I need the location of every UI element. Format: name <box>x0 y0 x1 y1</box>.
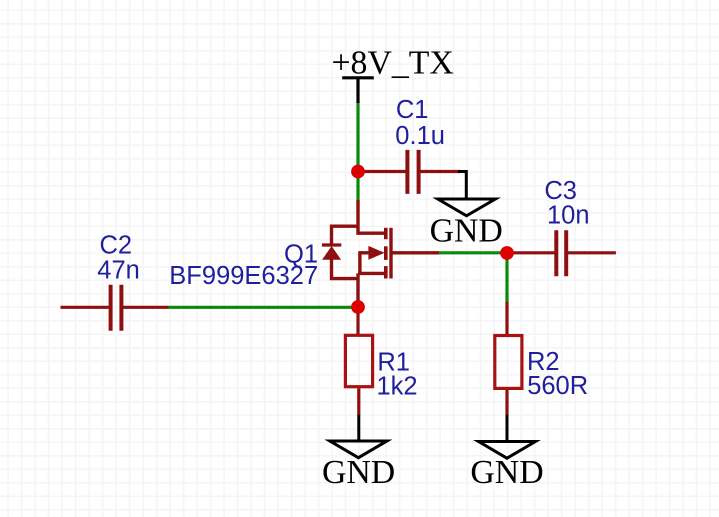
svg-text:47n: 47n <box>97 256 140 284</box>
svg-text:GND: GND <box>470 454 543 491</box>
svg-text:GND: GND <box>430 213 503 250</box>
svg-text:10n: 10n <box>547 201 590 229</box>
svg-text:0.1u: 0.1u <box>395 122 445 150</box>
svg-text:+8V_TX: +8V_TX <box>332 44 454 81</box>
svg-text:BF999E6327: BF999E6327 <box>169 262 318 290</box>
svg-text:1k2: 1k2 <box>377 372 418 400</box>
svg-text:C2: C2 <box>100 231 133 259</box>
svg-text:C1: C1 <box>396 96 429 124</box>
svg-text:GND: GND <box>322 454 395 491</box>
svg-text:560R: 560R <box>527 372 588 400</box>
